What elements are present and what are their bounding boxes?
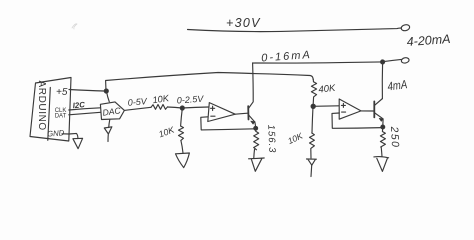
U1 minus sign xyxy=(211,115,215,117)
Arduino box xyxy=(30,78,71,142)
resistor R6 250 xyxy=(380,128,385,147)
resistor R1 10K horizontal xyxy=(151,105,168,110)
DAC symbol xyxy=(100,102,124,120)
I2C wire DAT xyxy=(69,112,101,115)
node 0-2.5V junction xyxy=(180,106,184,110)
ground below R2 xyxy=(176,153,190,168)
Arduino internal divider xyxy=(48,88,51,141)
Q2 emitter with arrow xyxy=(374,113,383,119)
svg-text:4mA: 4mA xyxy=(387,78,408,94)
svg-text:0-5V: 0-5V xyxy=(127,96,148,108)
transistor Q1 base bar xyxy=(247,106,249,119)
wire U2 out to Q2 base xyxy=(361,110,374,112)
svg-text:ARDUINO: ARDUINO xyxy=(36,81,47,131)
wire divider node to op-amp U2 + xyxy=(313,105,339,108)
wire R1 to node 0-2.5V xyxy=(168,107,183,108)
U2 minus sign xyxy=(342,111,346,113)
wire arduino +5 to DAC vcc xyxy=(69,90,104,92)
transistor Q2 base bar xyxy=(373,101,375,117)
wire 4mA branch xyxy=(381,63,383,99)
+30V supply wire xyxy=(188,28,402,32)
svg-text:40K: 40K xyxy=(318,83,337,96)
ground below DAC xyxy=(104,127,112,142)
wire 40K top lead xyxy=(312,79,314,82)
+30V terminal xyxy=(401,24,411,32)
svg-text:250: 250 xyxy=(388,125,401,148)
wire +5 rail up and across to 40K xyxy=(106,73,314,92)
U1 plus sign xyxy=(211,106,215,110)
ground below R3 xyxy=(249,158,265,171)
wire junction to output terminal xyxy=(383,59,402,61)
wire node down to R2 xyxy=(181,109,183,127)
svg-text:0-2.5V: 0-2.5V xyxy=(176,94,204,106)
wire DAC vcc stub xyxy=(107,92,110,102)
svg-text:4-20mA: 4-20mA xyxy=(406,32,451,49)
ground below R5 xyxy=(307,159,317,165)
Q1 emitter with arrow xyxy=(248,115,254,122)
wire R3 to ground xyxy=(253,150,256,159)
wire R2 to ground xyxy=(181,140,183,153)
wire 0-16mA output line xyxy=(253,62,383,63)
U2 plus sign xyxy=(341,103,345,107)
resistor R2 10K vertical xyxy=(179,126,184,140)
ground below R6 xyxy=(374,157,389,172)
svg-text:10K: 10K xyxy=(157,124,176,139)
op-amp U2 xyxy=(339,99,361,119)
svg-text:0-16mA: 0-16mA xyxy=(261,49,312,64)
resistor R3 156.3 xyxy=(254,129,259,150)
wire R6 to ground xyxy=(380,147,383,157)
svg-text:DAT: DAT xyxy=(55,113,67,119)
node +5/DAC junction xyxy=(104,89,108,93)
wire node down to R5 xyxy=(312,107,313,133)
wire U1 out to Q1 base xyxy=(235,113,247,114)
svg-text:+30V: +30V xyxy=(226,16,261,30)
op-amp U1 xyxy=(208,103,235,122)
wire Q1 emitter down xyxy=(254,122,257,129)
wire GND pin to ground xyxy=(62,133,78,138)
wire U1 feedback xyxy=(201,117,256,130)
output terminal xyxy=(401,57,410,64)
svg-text:156.3: 156.3 xyxy=(265,125,277,154)
wire DAC ground stub xyxy=(109,120,110,128)
svg-text:I2C: I2C xyxy=(72,100,85,110)
wire node to op-amp U1 + xyxy=(182,107,208,108)
svg-text:10K: 10K xyxy=(152,93,170,105)
I2C wire CLK xyxy=(69,108,101,110)
Q1 collector xyxy=(248,63,253,108)
ground below arduino xyxy=(73,138,83,148)
Q2 collector xyxy=(374,99,382,106)
svg-text:10K: 10K xyxy=(286,130,304,146)
node Q1 emitter junction xyxy=(254,126,258,130)
node divider junction xyxy=(311,104,315,108)
resistor R5 10K xyxy=(310,133,315,148)
resistor R4 40K xyxy=(311,82,316,106)
wire Q2 emitter down xyxy=(382,119,384,127)
wire DAC out to R1 xyxy=(124,107,151,110)
svg-text:+5: +5 xyxy=(56,87,68,98)
wire R5 to ground xyxy=(310,149,312,159)
node Q2 emitter junction xyxy=(381,125,385,129)
wire U2 feedback xyxy=(332,113,383,128)
node junction on output line xyxy=(381,60,385,64)
svg-text:DAC: DAC xyxy=(102,105,122,118)
faint pen smudge top-left xyxy=(72,24,77,29)
